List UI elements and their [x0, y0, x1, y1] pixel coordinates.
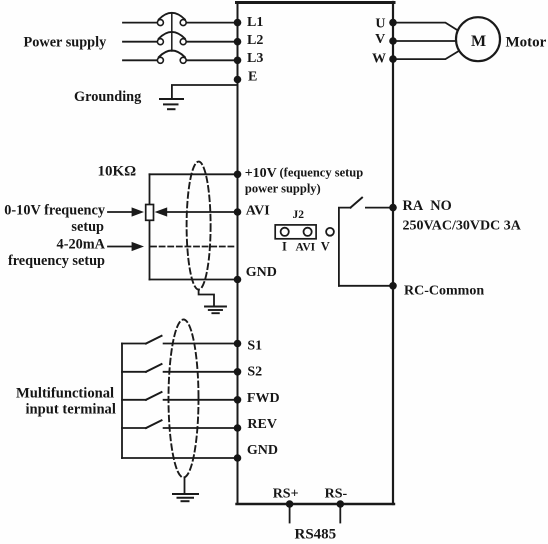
wire GND bottom [122, 457, 238, 459]
node +10V [234, 171, 242, 179]
node GND digital [234, 454, 242, 462]
wire +10V to potentiometer top [150, 173, 238, 175]
svg-text:GND: GND [246, 265, 277, 280]
jumper pin V [326, 228, 334, 236]
switch S1 stub [122, 343, 146, 345]
switch REV blade [146, 420, 162, 428]
ground symbol analog shield [205, 307, 226, 314]
svg-text:S2: S2 [247, 365, 262, 380]
wire RS+ drop [289, 504, 291, 523]
switch S2 blade [146, 364, 162, 372]
node S1 [234, 340, 242, 348]
svg-text:I: I [282, 240, 287, 254]
switch FWD blade [146, 392, 162, 400]
wire S1 [164, 343, 238, 345]
relay blade [351, 198, 363, 208]
svg-text:L3: L3 [247, 51, 263, 66]
svg-text:U: U [375, 16, 385, 31]
wire L2 input [123, 41, 157, 43]
svg-text:FWD: FWD [247, 391, 280, 406]
node RC [389, 282, 397, 290]
0-10V pointer arrowhead [132, 207, 144, 216]
svg-text:J2: J2 [293, 209, 305, 221]
svg-text:AVI: AVI [246, 204, 270, 219]
svg-text:W: W [372, 52, 386, 67]
ground symbol at E [160, 99, 183, 109]
motor M1 circle [456, 17, 500, 61]
svg-text:Multifunctional: Multifunctional [16, 386, 114, 402]
shielded cable ellipse (digital) [169, 320, 199, 478]
breaker arc L2 [159, 32, 185, 39]
node L3 [234, 57, 242, 65]
shielded cable ellipse (analog) [187, 162, 211, 290]
breaker switch contact circles L1 [157, 20, 186, 26]
node E [234, 76, 242, 84]
node L2 [234, 38, 242, 46]
node RA [389, 204, 397, 212]
wire FWD [164, 399, 238, 401]
potentiometer branch vertical [149, 174, 151, 279]
node RS+ [286, 500, 294, 508]
svg-text:setup: setup [71, 219, 104, 235]
svg-text:REV: REV [247, 417, 277, 432]
potentiometer R1 10K body [146, 205, 154, 221]
node L1 [234, 19, 242, 27]
wire RC [339, 285, 393, 287]
wire W to motor [393, 52, 458, 60]
svg-text:M: M [471, 33, 486, 50]
jumper pin AVI [304, 228, 312, 236]
relay contact stub [339, 208, 351, 286]
svg-text:RA NO: RA NO [403, 198, 452, 214]
multifunction input bus [121, 344, 123, 459]
svg-text:RS+: RS+ [273, 487, 299, 502]
wire L3 input [123, 59, 157, 61]
wire L1 input [123, 22, 157, 24]
svg-text:power supply): power supply) [245, 182, 321, 196]
svg-text:E: E [248, 69, 257, 84]
svg-text:10KΩ: 10KΩ [98, 164, 137, 180]
wire E grounding [172, 85, 238, 99]
dashed 4-20mA current signal wire [151, 246, 237, 248]
wire L1 to terminal [186, 22, 237, 24]
wiper arrowhead into pot [155, 207, 168, 216]
node REV [234, 424, 242, 432]
svg-text:4-20mA: 4-20mA [57, 237, 106, 253]
svg-text:RC-Common: RC-Common [404, 284, 484, 299]
svg-text:RS485: RS485 [295, 527, 337, 543]
node AVI [234, 208, 242, 216]
4-20mA pointer arrowhead [132, 242, 144, 251]
switch REV stub [122, 427, 146, 429]
node V [389, 37, 397, 45]
svg-text:Motor: Motor [506, 35, 547, 51]
wire AVI from wiper [166, 211, 238, 213]
wire S2 [164, 371, 238, 373]
svg-text:V: V [375, 32, 385, 47]
inverter main box U1 [237, 2, 395, 504]
breaker switch contact circles L3 [157, 57, 186, 63]
svg-text:L1: L1 [247, 15, 263, 30]
switch FWD stub [122, 399, 146, 401]
svg-text:L2: L2 [247, 33, 263, 48]
node S2 [234, 368, 242, 376]
node GND analog [234, 276, 242, 284]
wire REV [164, 427, 238, 429]
breaker switch contact circles L2 [157, 39, 186, 45]
svg-text:frequency setup: frequency setup [8, 253, 105, 269]
node U [389, 19, 397, 27]
breaker gang linkage [171, 13, 173, 51]
svg-text:AVI: AVI [296, 242, 316, 254]
wire RA [366, 207, 393, 209]
svg-text:S1: S1 [247, 339, 262, 354]
jumper J2 block [275, 225, 316, 239]
wire GND lower side of pot [150, 279, 238, 281]
svg-text:input terminal: input terminal [26, 402, 116, 418]
svg-text:RS-: RS- [325, 487, 348, 502]
wire V to motor [393, 40, 456, 42]
jumper pin I [281, 228, 289, 236]
switch S2 stub [122, 371, 146, 373]
svg-text:(fequency setup: (fequency setup [280, 166, 364, 180]
wire L3 to terminal [186, 59, 237, 61]
breaker arc L1 [159, 13, 185, 20]
0-10V pointer line [108, 211, 133, 213]
svg-text:Grounding: Grounding [74, 89, 142, 105]
node FWD [234, 396, 242, 404]
switch S1 blade [146, 336, 162, 344]
svg-text:250VAC/30VDC 3A: 250VAC/30VDC 3A [403, 219, 522, 234]
terminal dots left side [234, 19, 397, 508]
breaker arc L3 [159, 51, 185, 58]
svg-text:+10V: +10V [245, 166, 277, 181]
node RS- [337, 500, 345, 508]
shield drain wire (digital) [184, 478, 186, 494]
svg-text:GND: GND [247, 443, 278, 458]
wire L2 to terminal [186, 41, 237, 43]
wire U to motor [393, 23, 458, 31]
svg-text:V: V [321, 240, 330, 254]
node W [389, 55, 397, 63]
svg-text:Power supply: Power supply [24, 35, 108, 51]
ground symbol digital shield [173, 494, 198, 501]
shield drain wire (analog) [199, 290, 214, 307]
4-20mA pointer line [108, 246, 133, 248]
wire RS- drop [339, 504, 341, 523]
svg-text:0-10V frequency: 0-10V frequency [4, 203, 106, 219]
